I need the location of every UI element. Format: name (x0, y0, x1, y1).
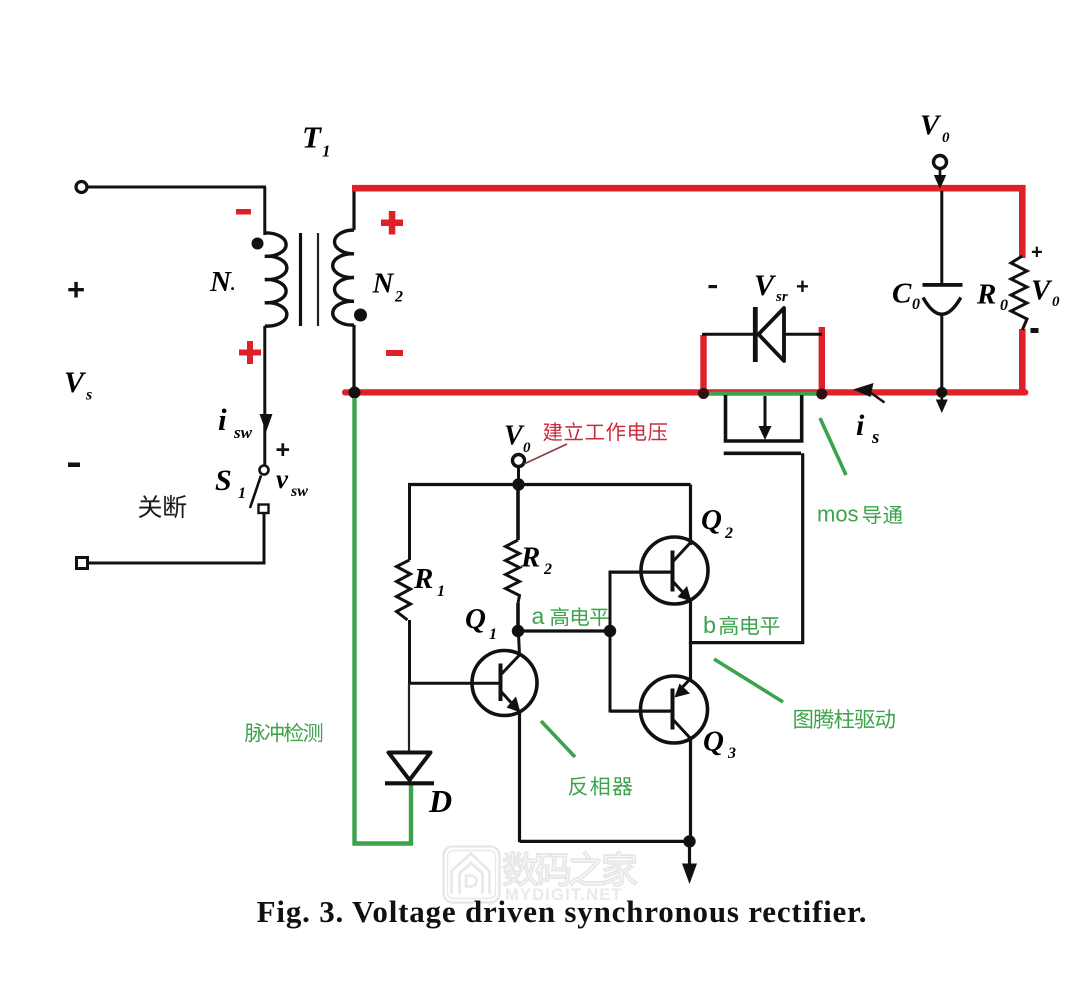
wire node b to Q3 emitter (689, 642, 692, 679)
svg-text:R: R (413, 563, 433, 595)
wire b to gate (689, 641, 804, 644)
red bottom rail (345, 389, 1025, 395)
resistor R1 zigzag (397, 560, 411, 620)
green overlay on bottom rail (703, 392, 820, 396)
wire Q2 collector up (689, 485, 692, 546)
label T1 transformer (302, 120, 331, 161)
svg-text:i: i (856, 409, 865, 442)
wire Q2 emitter to node b (689, 600, 692, 644)
wire node to Q3 base dropper (610, 631, 672, 711)
primary phase dot (252, 238, 264, 250)
green leader mos (820, 418, 846, 475)
svg-text:0: 0 (912, 296, 920, 313)
label V0 driver supply (504, 421, 531, 457)
annotation pulse detect (green) (245, 723, 322, 743)
svg-text:Q: Q (701, 504, 722, 536)
wire node a to node right (518, 629, 611, 632)
label b high level (green) (703, 612, 779, 638)
node Vsr right (dark) (816, 389, 827, 400)
wire top-left horizontal (88, 186, 266, 189)
label guanduan (turn-off) (139, 495, 186, 518)
transistor Q1 (410, 651, 538, 716)
svg-text:+: + (796, 274, 809, 299)
label a high level (green) (532, 603, 609, 629)
switch S1 pole circle (260, 466, 269, 475)
node ground (683, 835, 695, 847)
transformer core (301, 233, 319, 326)
MOSFET bottom bar (724, 439, 804, 443)
label N1 (209, 266, 236, 298)
svg-text:sw: sw (233, 423, 253, 442)
switch S1 throw square (259, 505, 269, 514)
transformer primary winding N1 (265, 233, 287, 326)
node C0 bottom (936, 387, 947, 398)
label i_s (856, 409, 879, 448)
red stub left of Vsr (700, 335, 706, 393)
svg-text:3: 3 (727, 745, 736, 762)
wire switch bottom (263, 513, 266, 565)
label R2 (520, 542, 552, 579)
ground arrow (682, 841, 697, 884)
label N2 (372, 268, 404, 306)
resistor R0 zigzag (1011, 256, 1027, 330)
capacitor C0 bottom lead (940, 313, 943, 392)
wire Q1 emitter down (518, 711, 521, 842)
wire primary top vertical (263, 187, 266, 235)
driver top rail wire (408, 483, 691, 486)
body diode Vsr wire left (702, 333, 753, 336)
label V0 top output (920, 110, 950, 147)
label R0 (976, 279, 1008, 315)
svg-text:0: 0 (1052, 294, 1060, 310)
svg-text:D: D (428, 783, 452, 819)
node a right (604, 625, 616, 637)
svg-text:2: 2 (724, 525, 733, 542)
wire R2 bottom vertical (516, 603, 520, 628)
terminal top-left input (76, 182, 87, 193)
wire V0 to node (517, 467, 520, 483)
diode D cathode bar (385, 781, 434, 785)
wire node to Q2 base riser (610, 572, 672, 631)
wire primary bottom vertical (263, 326, 266, 465)
MOSFET gate wire down (801, 453, 804, 644)
svg-text:C: C (892, 278, 912, 310)
annotation text establish working voltage (red) (543, 422, 667, 441)
svg-text:.: . (231, 274, 236, 294)
svg-text:0: 0 (1000, 297, 1008, 314)
transistor Q2 (610, 537, 708, 604)
svg-text:+: + (67, 272, 85, 307)
annotation mos on (green) (817, 502, 902, 527)
transistor Q3 (610, 676, 708, 743)
polarity minus secondary bottom (red) (386, 350, 403, 356)
transformer secondary winding N2 (333, 230, 354, 325)
label i_sw (218, 402, 253, 442)
capacitor C0 top lead (940, 191, 943, 284)
MOSFET source vertical left (724, 395, 728, 441)
secondary phase dot (354, 309, 367, 322)
wire R1 bottom vertical (408, 620, 411, 684)
node transformer bottom (349, 387, 361, 399)
watermark logo (444, 847, 500, 903)
green leader inverter (541, 721, 575, 757)
label C0 (892, 278, 920, 314)
current arrow i_sw (260, 414, 273, 432)
svg-text:V: V (504, 421, 525, 452)
svg-text:Fig. 3. Voltage driven synchro: Fig. 3. Voltage driven synchronous recti… (257, 894, 868, 929)
wire Q3 collector down (689, 738, 692, 842)
red top rail (352, 188, 1022, 258)
svg-text:N: N (372, 268, 395, 300)
polarity plus primary bottom (red) (239, 341, 261, 364)
wire R2 top vertical (516, 485, 520, 541)
arrow V0 into rail (934, 169, 946, 189)
wire secondary top vertical (352, 186, 355, 230)
label Q1 (465, 603, 497, 643)
svg-text:i: i (218, 402, 227, 437)
svg-text:sr: sr (775, 289, 788, 305)
MOSFET drain vertical right (800, 395, 804, 441)
resistor R2 zigzag (506, 540, 520, 603)
terminal V0 driver (513, 455, 525, 467)
svg-text:Q: Q (703, 726, 724, 758)
svg-text:Q: Q (465, 603, 486, 635)
diode D triangle (389, 753, 431, 781)
svg-text:V: V (64, 366, 87, 399)
polarity minus primary top (red) (236, 209, 251, 215)
annotation totem pole drive (green) (794, 709, 895, 729)
svg-text:V: V (1031, 275, 1053, 307)
label Q3 (703, 726, 736, 763)
wire R1 top vertical (408, 485, 411, 561)
svg-text:V: V (754, 269, 777, 302)
svg-text:2: 2 (543, 561, 552, 578)
label Q2 (701, 504, 733, 542)
current arrow i_s on rail (853, 383, 885, 403)
svg-text:+: + (276, 436, 291, 464)
label Vsr (754, 269, 788, 305)
body diode Vsr triangle (759, 308, 785, 361)
label minus Vsr (709, 285, 718, 288)
label Vs source (64, 366, 92, 404)
svg-text:0: 0 (942, 130, 950, 146)
terminal V0 top (934, 156, 947, 169)
node a (512, 625, 524, 637)
body diode Vsr wire right (784, 333, 822, 336)
wire bottom-left horizontal (87, 562, 264, 565)
MOSFET channel arrow (759, 396, 772, 440)
wire base rail to diode D (408, 683, 410, 752)
svg-text:1: 1 (437, 583, 445, 600)
wire node a to Q1 collector (519, 633, 520, 656)
MOSFET gate plate (724, 451, 801, 455)
svg-text:1: 1 (489, 626, 497, 643)
arrow below C0 (936, 392, 948, 413)
svg-text:T: T (302, 120, 322, 155)
svg-text:+: + (1031, 242, 1043, 264)
svg-text:mos: mos (817, 502, 859, 527)
green leader totem pole (714, 659, 783, 702)
red stub right of Vsr (819, 327, 825, 396)
svg-text:sw: sw (290, 483, 308, 500)
minus source (68, 463, 80, 468)
svg-text:R: R (976, 279, 996, 311)
wire secondary bottom vertical (352, 325, 355, 392)
annotation leader line (red) (524, 444, 567, 464)
switch S1 lever (250, 476, 261, 509)
svg-text:b: b (703, 612, 716, 638)
svg-text:1: 1 (238, 485, 246, 502)
svg-text:v: v (276, 464, 289, 494)
svg-text:1: 1 (322, 142, 331, 161)
svg-text:V: V (920, 110, 942, 142)
svg-text:S: S (215, 464, 232, 497)
svg-text:a: a (532, 603, 545, 629)
label S1 (215, 464, 246, 502)
label V0 right (1031, 275, 1060, 311)
minus R0 (1031, 328, 1039, 333)
label v_sw (276, 464, 308, 500)
node Vsr left (dark) (698, 388, 709, 399)
svg-text:N: N (209, 266, 232, 298)
capacitor C0 plates (923, 283, 963, 314)
svg-text:2: 2 (394, 289, 403, 306)
svg-text:s: s (871, 427, 879, 448)
polarity plus secondary top (red) (381, 211, 403, 235)
body diode Vsr cathode bar (753, 307, 758, 362)
red right rail lower (1019, 329, 1026, 393)
terminal bottom-left square (77, 558, 88, 569)
node driver supply (512, 478, 524, 490)
svg-text:R: R (520, 542, 540, 574)
driver ground rail (520, 840, 691, 843)
annotation inverter (green) (569, 776, 633, 795)
green long wire from transformer node (355, 398, 412, 844)
label R1 (413, 563, 445, 600)
svg-text:0: 0 (523, 440, 531, 456)
svg-text:s: s (85, 387, 92, 404)
watermark text shuma zhijia (503, 852, 636, 886)
